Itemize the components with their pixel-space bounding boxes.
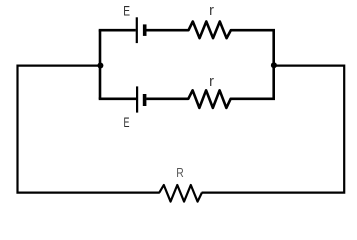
svg-text:E: E [124,114,130,130]
svg-text:r: r [209,2,214,19]
svg-text:r: r [209,73,214,90]
svg-text:E: E [123,2,130,18]
svg-text:R: R [176,165,184,180]
